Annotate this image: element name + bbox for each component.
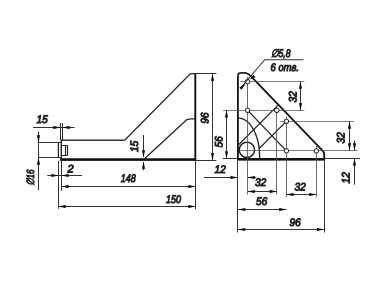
- bottom hole row centerline: [239, 150, 358, 152]
- rib edge diagonal D2: [238, 106, 278, 146]
- dim 32 upper right top arrow: [299, 82, 302, 89]
- dim 15 top-left left arrow: [53, 126, 60, 129]
- dim 12 right upper tail: [354, 141, 356, 151]
- svg-text:32: 32: [288, 91, 300, 102]
- hole row2 centerline: [223, 110, 304, 112]
- dim 15 top-left dimension line: [33, 127, 75, 129]
- dim 56 bottom dimension line: [238, 209, 286, 211]
- front view top rounded corner: [238, 73, 251, 76]
- svg-text:56: 56: [214, 135, 226, 147]
- dim 56 front view dimension line: [226, 110, 228, 158]
- side view base plate top surface: [61, 139, 125, 141]
- front view hypotenuse: [251, 76, 321, 148]
- svg-text:96: 96: [290, 217, 302, 229]
- dim 96 side view top arrow: [211, 74, 214, 81]
- dim 15 rib upper arrow: [142, 150, 145, 157]
- dim 32 bottom first right arrow: [270, 190, 277, 193]
- hole 1: [245, 79, 249, 83]
- dim 32 bottom first dimension line: [248, 191, 277, 193]
- dim 148 dimension line: [62, 186, 196, 188]
- dim 32 upper right dimension line: [300, 82, 302, 111]
- side view base plate bottom edge: [60, 158, 196, 161]
- side view right edge lower extension: [195, 161, 197, 209]
- dim 96 bottom left arrow: [238, 228, 245, 231]
- svg-text:148: 148: [121, 173, 137, 185]
- boss inner detail: [61, 146, 67, 156]
- hole column2 centerline: [276, 105, 278, 194]
- svg-text:150: 150: [166, 194, 182, 206]
- front view bottom right corner: [321, 149, 325, 161]
- dim 150 left arrow: [59, 205, 66, 208]
- dim 150 right arrow: [188, 205, 195, 208]
- dim 32 mid right top arrow: [348, 122, 351, 129]
- dim 2 extension line right: [61, 161, 63, 191]
- svg-text:56: 56: [256, 196, 268, 208]
- svg-text:32: 32: [295, 181, 306, 193]
- svg-text:∅5,8: ∅5,8: [271, 48, 291, 60]
- front view right edge lower extension: [324, 161, 326, 233]
- dim 2 dimension line: [47, 175, 82, 177]
- dim 150 dimension line: [58, 206, 195, 208]
- dim 15 rib lower tail: [143, 162, 145, 170]
- dim 12 bottom left arrow: [231, 176, 238, 179]
- hole row1 centerline: [241, 81, 305, 83]
- hole 3: [275, 108, 279, 112]
- dim 12 bottom dimension line: [204, 177, 238, 179]
- hole column1 centerline: [247, 77, 249, 195]
- boss bottom edge and dia16 bottom extension: [38, 157, 61, 159]
- dim 15 top-left extension lines: [60, 123, 62, 140]
- svg-text:12: 12: [341, 172, 353, 183]
- dim 15 top-left right arrow: [63, 126, 70, 129]
- dim 148 left arrow: [62, 185, 69, 188]
- hole column4 centerline: [316, 146, 318, 197]
- dim 2 left arrow: [51, 174, 58, 177]
- side view top edge: [190, 73, 196, 75]
- dim 12 right lower arrow: [353, 158, 356, 165]
- svg-text:32: 32: [336, 132, 348, 143]
- dim 56 front view top arrow: [225, 110, 228, 117]
- dim 32 bottom second dimension line: [286, 194, 316, 196]
- hole 6: [314, 149, 318, 153]
- dim 32 mid right bottom arrow: [348, 143, 351, 150]
- front view left edge lower extension: [237, 161, 239, 233]
- label dia5,8 leader arrow lower: [239, 84, 245, 90]
- front view left edge: [237, 76, 239, 160]
- svg-text:12: 12: [215, 164, 226, 176]
- hole 5: [284, 149, 288, 153]
- dim 96 side view bottom extension: [196, 160, 216, 162]
- svg-text:15: 15: [37, 114, 49, 126]
- svg-text:15: 15: [129, 140, 141, 152]
- boss tip face: [57, 143, 59, 158]
- hole 4: [284, 119, 288, 123]
- dim 56 front view bottom arrow: [225, 151, 228, 158]
- dim dia16 top arrow: [37, 135, 40, 142]
- dim 56 bottom left arrow: [238, 208, 245, 211]
- label dia5,8 leader line: [240, 60, 304, 89]
- rib edge diagonal D1: [248, 110, 287, 151]
- hole 2: [245, 108, 249, 112]
- side view rib upper diagonal edge: [125, 74, 191, 141]
- dim dia16 bottom arrow: [37, 158, 40, 165]
- dim 12 bottom right tail: [248, 177, 257, 179]
- svg-text:32: 32: [255, 177, 266, 189]
- dim 32 bottom second right arrow: [309, 193, 316, 196]
- dim 96 bottom right arrow: [317, 228, 324, 231]
- side view right edge: [194, 74, 196, 161]
- label dia5,8 leader arrow upper: [250, 75, 256, 80]
- rib edge diagonal D3: [259, 121, 287, 149]
- side view left edge: [60, 140, 62, 161]
- rib fillet arc front view: [238, 118, 260, 158]
- boss top edge and dia16 top extension: [38, 142, 61, 144]
- dim 2 extension line left: [58, 161, 60, 209]
- dim 148 right arrow: [188, 185, 195, 188]
- dim 96 side view top extension: [192, 73, 216, 75]
- dim dia16 dimension line: [38, 132, 40, 190]
- dim 15 rib dimension line: [143, 135, 145, 157]
- dim 32 bottom second left arrow: [286, 193, 293, 196]
- dim 56 front view base extension: [223, 158, 237, 160]
- svg-text:96: 96: [200, 112, 212, 124]
- boss circle front view: [239, 142, 254, 157]
- dim 2 right arrow: [62, 174, 69, 177]
- front view base right extension: [325, 158, 360, 160]
- side view rib lower edge with fillet: [145, 119, 195, 158]
- svg-text:∅16: ∅16: [25, 169, 37, 185]
- svg-text:6 отв.: 6 отв.: [271, 62, 300, 74]
- dim 12 right upper arrow: [353, 143, 356, 150]
- hole column3 centerline: [286, 116, 288, 197]
- front view base edge: [237, 158, 325, 161]
- dim 32 mid right dimension line: [349, 121, 351, 151]
- hole4 row centerline: [280, 121, 354, 123]
- dim 96 side view dimension line: [212, 74, 214, 161]
- dim 56 bottom right arrow: [279, 208, 286, 211]
- svg-text:2: 2: [67, 164, 74, 176]
- dim 12 bottom right arrow: [248, 176, 255, 179]
- dim 96 bottom dimension line: [238, 229, 324, 231]
- dim 32 bottom first left arrow: [248, 190, 255, 193]
- dim 96 side view bottom arrow: [211, 153, 214, 160]
- dim 12 right lower tail: [354, 158, 356, 184]
- dim 32 upper right bottom arrow: [299, 103, 302, 110]
- dim 15 rib lower arrow: [142, 162, 145, 169]
